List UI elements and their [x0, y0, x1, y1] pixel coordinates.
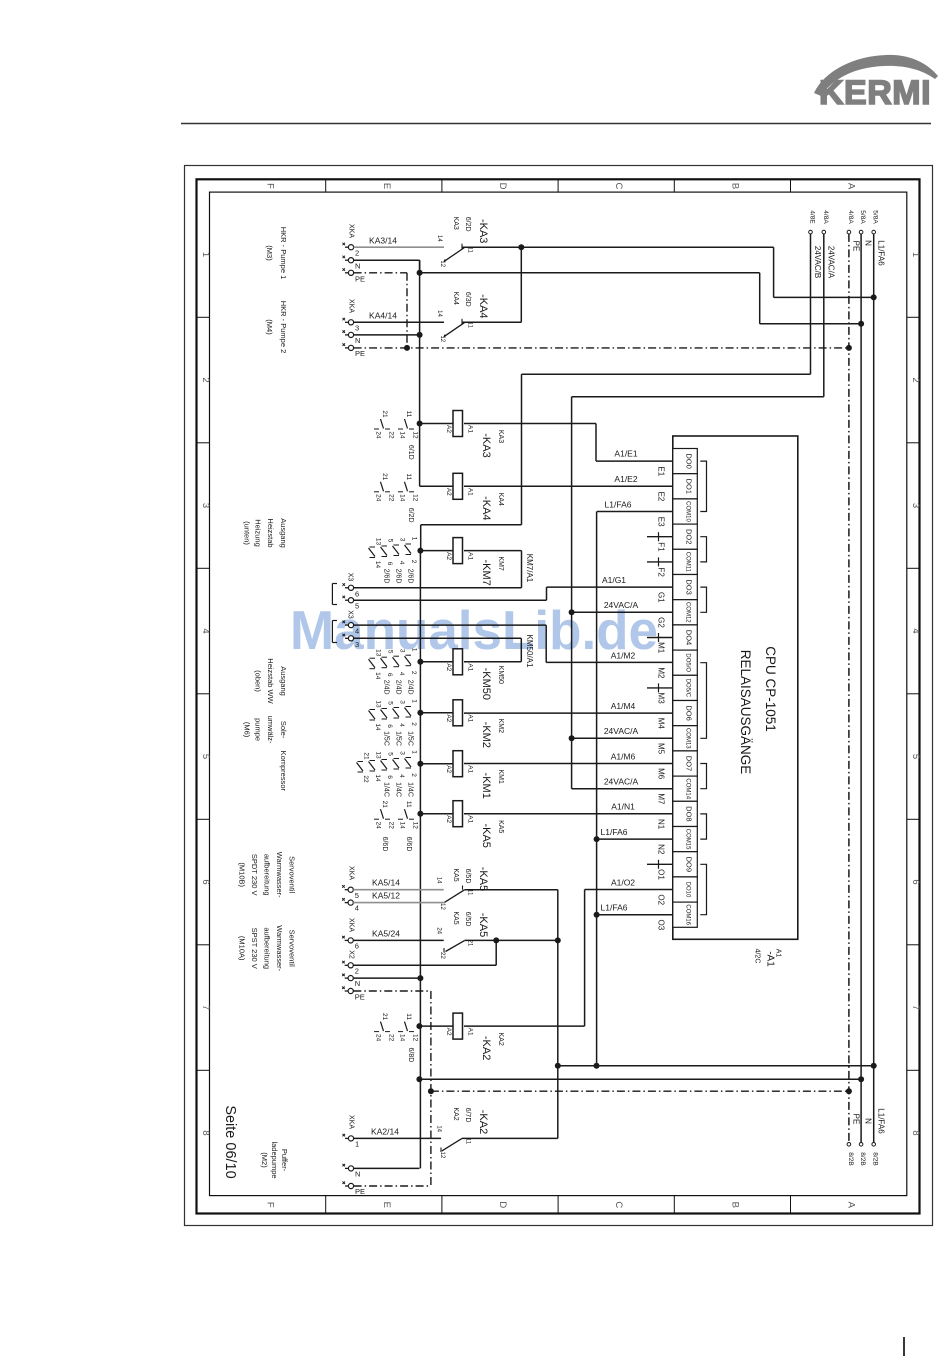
svg-text:ManualsLib.de: ManualsLib.de	[290, 599, 658, 661]
svg-text:A2: A2	[445, 765, 452, 773]
svg-text:-KA3: -KA3	[477, 219, 489, 243]
label Puffer- ladepumpe (M2)	[260, 1141, 289, 1178]
svg-text:14: 14	[436, 310, 442, 317]
svg-text:5/8A: 5/8A	[859, 210, 866, 224]
svg-text:8: 8	[200, 1130, 211, 1135]
terminal XKA:3	[343, 299, 360, 332]
contact refs KA2	[374, 1013, 419, 1062]
svg-text:PE: PE	[355, 274, 365, 283]
svg-text:DO8: DO8	[685, 806, 694, 821]
svg-text:KA4/14: KA4/14	[369, 311, 397, 321]
svg-text:DO1: DO1	[685, 479, 694, 494]
svg-text:A1/M4: A1/M4	[611, 701, 636, 711]
CPU terminal E3 (COM10)	[657, 499, 698, 527]
svg-text:KA3: KA3	[452, 217, 459, 230]
svg-text:(M2): (M2)	[260, 1152, 269, 1168]
terminal X3:4	[332, 610, 359, 642]
svg-text:(M6): (M6)	[243, 722, 252, 738]
svg-text:11: 11	[405, 1013, 412, 1020]
svg-text:N: N	[355, 979, 360, 988]
svg-text:6: 6	[355, 942, 359, 951]
CPU terminal O3 (COM16)	[657, 902, 698, 931]
wire KA5 contact2 out	[465, 937, 561, 943]
CPU U-A1 outline	[673, 436, 798, 939]
svg-text:E: E	[381, 183, 392, 189]
svg-text:3: 3	[399, 751, 406, 755]
svg-text:12: 12	[439, 335, 445, 342]
contact KA4 (11/12/14)	[436, 292, 489, 343]
svg-text:DO9: DO9	[685, 857, 694, 872]
svg-text:M3: M3	[657, 693, 666, 705]
svg-text:24: 24	[375, 1034, 382, 1042]
svg-text:KERMI: KERMI	[819, 74, 931, 112]
svg-text:14: 14	[399, 494, 406, 502]
svg-text:PE: PE	[355, 992, 365, 1001]
net L1/FA6 bus	[872, 210, 886, 1165]
svg-text:14: 14	[374, 774, 381, 782]
svg-text:12: 12	[412, 1034, 419, 1042]
svg-text:2/6D: 2/6D	[395, 569, 402, 584]
CPU terminal F1 (DO2)	[657, 524, 698, 552]
svg-text:COM15: COM15	[685, 829, 691, 850]
terminal XKA:6	[342, 918, 359, 951]
svg-text:6/1D: 6/1D	[407, 445, 414, 460]
svg-text:2/4D: 2/4D	[383, 680, 390, 695]
svg-text:12: 12	[439, 1152, 445, 1159]
svg-text:O3: O3	[657, 920, 666, 931]
svg-text:Servoventil: Servoventil	[288, 930, 297, 967]
svg-text:PE: PE	[852, 241, 861, 252]
svg-text:6: 6	[386, 673, 393, 677]
frame row numbers	[200, 252, 921, 1136]
contact refs KA4	[374, 473, 419, 522]
svg-text:C: C	[613, 1201, 624, 1208]
label Sole- umwaelz- pumpe (M6)	[243, 716, 288, 744]
svg-text:KA2: KA2	[497, 1032, 504, 1045]
svg-text:14: 14	[399, 822, 406, 830]
svg-text:2/4D: 2/4D	[395, 680, 402, 695]
svg-text:3: 3	[399, 700, 406, 704]
relay coil KM7	[417, 538, 504, 586]
svg-text:Kompressor: Kompressor	[279, 751, 288, 792]
svg-text:3: 3	[910, 503, 921, 508]
svg-text:6/7D: 6/7D	[464, 1108, 471, 1123]
relay coil KA2	[416, 1013, 504, 1060]
wire 24VAC/A drop	[569, 397, 673, 789]
relay coil KA4	[420, 473, 504, 520]
svg-text:2: 2	[200, 377, 211, 382]
label HKR - Pumpe 2 (M4)	[265, 301, 288, 354]
svg-text:11: 11	[405, 473, 412, 480]
svg-text:4: 4	[398, 774, 405, 778]
svg-text:CPU CP-1051: CPU CP-1051	[763, 646, 778, 732]
svg-text:KA2/14: KA2/14	[371, 1126, 399, 1136]
svg-text:F2: F2	[657, 567, 666, 577]
terminal XKA:N (2)	[343, 330, 361, 345]
svg-text:L1/FA6: L1/FA6	[601, 903, 628, 913]
svg-text:A2: A2	[445, 488, 452, 496]
svg-text:A1: A1	[467, 815, 474, 823]
svg-text:-KA5: -KA5	[477, 913, 489, 937]
svg-text:14: 14	[374, 672, 381, 680]
svg-text:-KA4: -KA4	[480, 496, 492, 520]
svg-text:2: 2	[410, 722, 417, 726]
svg-text:A1/O2: A1/O2	[611, 877, 635, 887]
svg-text:N: N	[355, 261, 360, 270]
svg-text:3: 3	[200, 503, 211, 508]
svg-text:24: 24	[375, 822, 382, 830]
svg-text:A1/N1: A1/N1	[611, 802, 635, 812]
contact refs KM50	[369, 648, 418, 695]
CPU terminal E2 (DO1)	[657, 474, 698, 502]
svg-text:F: F	[265, 1202, 276, 1208]
wire A1/M2 from X3:4	[354, 625, 673, 662]
svg-text:N: N	[355, 1169, 360, 1178]
terminal XKA:5	[342, 866, 359, 900]
svg-text:M5: M5	[657, 743, 666, 755]
drawing frame inner	[210, 192, 907, 1196]
CPU terminal N2 (COM15)	[657, 827, 698, 855]
svg-text:E2: E2	[657, 492, 666, 502]
svg-text:12: 12	[439, 260, 445, 267]
label Servoventil SPST (M10A)	[237, 925, 296, 971]
svg-text:E1: E1	[657, 466, 666, 476]
svg-text:6: 6	[910, 879, 921, 884]
svg-text:KM7: KM7	[497, 556, 504, 571]
svg-text:X2: X2	[348, 950, 355, 959]
svg-text:3: 3	[355, 323, 359, 332]
svg-text:4: 4	[910, 628, 921, 633]
net PE bus	[847, 210, 861, 1165]
svg-text:M2: M2	[657, 667, 666, 679]
contact refs KM7	[369, 537, 418, 584]
svg-text:6/6D: 6/6D	[405, 837, 412, 852]
footer mark	[903, 1337, 905, 1356]
svg-text:(oben): (oben)	[254, 670, 263, 692]
svg-text:1/5C: 1/5C	[407, 731, 414, 746]
svg-text:M1: M1	[657, 642, 666, 654]
wire PE drop	[354, 273, 407, 348]
CPU terminal F2 (COM11)	[657, 549, 698, 577]
svg-text:N: N	[864, 240, 873, 246]
wire N2 to bus	[354, 332, 423, 338]
relay coil KM50	[417, 649, 521, 700]
svg-text:aufbereitung: aufbereitung	[262, 854, 271, 896]
svg-text:A1: A1	[467, 714, 474, 722]
svg-text:24VAC/A: 24VAC/A	[604, 777, 639, 787]
wire KM7/A1 to X3:6	[354, 551, 534, 588]
svg-text:KA2: KA2	[452, 1107, 459, 1120]
contact refs KM1	[357, 750, 418, 797]
wire A1/O2	[464, 877, 673, 1026]
svg-text:Heizstab WW: Heizstab WW	[266, 658, 275, 704]
terminal X3:6	[332, 573, 359, 605]
terminal XKA:1	[343, 1115, 360, 1149]
terminal XKA:N (bottom)	[343, 1164, 420, 1178]
CPU terminal O2 (DO10)	[657, 877, 698, 906]
CPU terminal G2 (COM12)	[657, 600, 698, 629]
svg-text:KA5/12: KA5/12	[372, 891, 400, 901]
wire A1/G1 from X3:5	[354, 575, 673, 600]
svg-text:-KM50: -KM50	[480, 668, 492, 700]
wire KA5/24	[353, 928, 443, 940]
svg-text:Sole-: Sole-	[279, 721, 288, 739]
svg-text:6/5D: 6/5D	[464, 869, 471, 884]
svg-text:3: 3	[399, 649, 406, 653]
svg-text:DO10: DO10	[685, 882, 691, 898]
terminal X2:2	[342, 950, 359, 975]
svg-text:14: 14	[399, 431, 406, 439]
svg-text:7: 7	[910, 1005, 921, 1010]
svg-text:4: 4	[398, 723, 405, 727]
wire KA2 common riser	[557, 940, 559, 1138]
svg-text:ladepumpe: ladepumpe	[270, 1141, 279, 1178]
contact KA5 (21/22/24)	[436, 911, 490, 959]
svg-text:22: 22	[362, 775, 369, 783]
svg-text:XKA: XKA	[348, 224, 355, 238]
frame ticks	[197, 179, 920, 1213]
contact KA5 (11/12/14)	[436, 867, 490, 911]
net N bus	[859, 210, 873, 1165]
svg-text:aufbereitung: aufbereitung	[262, 927, 271, 969]
svg-text:5: 5	[355, 602, 359, 611]
svg-text:A1/G1: A1/G1	[602, 575, 626, 585]
svg-text:5: 5	[355, 891, 359, 900]
svg-text:pumpe: pumpe	[254, 718, 263, 741]
svg-text:8/2B: 8/2B	[847, 1152, 854, 1165]
CPU terminal E1 (DO0)	[657, 449, 698, 477]
svg-text:5: 5	[387, 650, 394, 654]
label Ausgang Heizstab Heizung (unten)	[243, 518, 288, 548]
svg-text:5: 5	[200, 754, 211, 759]
svg-text:13: 13	[375, 649, 382, 657]
svg-text:14: 14	[436, 1125, 442, 1132]
svg-text:A1: A1	[467, 488, 474, 496]
svg-text:X3: X3	[347, 573, 354, 582]
svg-text:-KA4: -KA4	[477, 294, 489, 318]
svg-text:8/2B: 8/2B	[859, 1152, 866, 1165]
svg-text:7: 7	[200, 1005, 211, 1010]
wire KA4/14	[354, 311, 444, 323]
stub wire at y=561.9	[647, 557, 673, 566]
svg-text:22: 22	[439, 952, 445, 959]
svg-text:1: 1	[411, 699, 418, 703]
svg-text:KM50: KM50	[497, 666, 504, 684]
svg-text:M4: M4	[657, 718, 666, 730]
svg-text:L1/FA6: L1/FA6	[601, 827, 628, 837]
label HKR - Pumpe 1 (M3)	[265, 227, 288, 280]
svg-text:COM16: COM16	[685, 904, 691, 925]
stub wire at y=637.5	[647, 633, 673, 642]
svg-text:1/4C: 1/4C	[407, 782, 414, 797]
svg-text:24VAC/A: 24VAC/A	[826, 246, 835, 279]
svg-text:(M10B): (M10B)	[237, 862, 246, 887]
wire N bottom link	[416, 1076, 864, 1082]
svg-text:KA5: KA5	[452, 868, 459, 881]
terminal X2:PE	[342, 987, 365, 1002]
svg-text:A2: A2	[445, 714, 452, 722]
svg-text:A2: A2	[445, 663, 452, 671]
CPU terminal G1 (DO3)	[657, 575, 698, 604]
svg-text:COM11: COM11	[685, 552, 691, 573]
junction KA3/KA4 out	[518, 244, 524, 250]
wire N to bus	[354, 260, 864, 327]
stub wire at y=536.7	[647, 532, 673, 541]
svg-text:21: 21	[381, 1013, 388, 1021]
svg-text:KM7/A1: KM7/A1	[525, 554, 534, 583]
svg-text:XKA: XKA	[348, 866, 355, 880]
page border	[185, 166, 933, 1226]
svg-text:6/2D: 6/2D	[464, 217, 471, 232]
wire KA5 common to node	[465, 890, 558, 941]
svg-text:2: 2	[355, 966, 359, 975]
wire PE bottom link	[428, 1088, 852, 1094]
svg-text:M7: M7	[657, 793, 666, 805]
svg-text:6: 6	[386, 775, 393, 779]
svg-text:-A1: -A1	[765, 951, 776, 967]
svg-text:Warmwasser-: Warmwasser-	[275, 925, 284, 971]
CPU terminal M2 (DO5/O)	[657, 650, 698, 679]
svg-text:KM1: KM1	[497, 769, 504, 784]
svg-text:N: N	[355, 336, 360, 345]
svg-text:3: 3	[355, 640, 359, 649]
terminal XKA:PE (bottom)	[343, 1182, 431, 1197]
svg-text:Puffer-: Puffer-	[280, 1149, 289, 1172]
svg-text:24: 24	[375, 494, 382, 502]
CPU terminal M6 (DO7)	[657, 751, 698, 780]
svg-text:8/2B: 8/2B	[872, 1152, 879, 1165]
svg-text:1: 1	[411, 750, 418, 754]
svg-text:6: 6	[386, 562, 393, 566]
svg-text:L1/FA6: L1/FA6	[876, 1108, 885, 1134]
svg-text:N1: N1	[657, 819, 666, 830]
svg-text:(M4): (M4)	[265, 319, 274, 335]
svg-text:D: D	[497, 183, 508, 190]
terminal X3:3	[343, 634, 360, 649]
net 24VAC/B feed	[522, 210, 823, 374]
svg-text:A1: A1	[467, 663, 474, 671]
svg-text:Ausgang: Ausgang	[279, 518, 288, 548]
svg-text:1: 1	[910, 252, 921, 257]
svg-text:6: 6	[355, 589, 359, 598]
svg-text:2: 2	[410, 671, 417, 675]
svg-text:A1: A1	[467, 1028, 474, 1036]
relay coil KM2	[417, 700, 504, 748]
svg-text:4/8A: 4/8A	[822, 210, 829, 224]
svg-text:2/4D: 2/4D	[407, 680, 414, 695]
svg-text:Warmwasser-: Warmwasser-	[275, 852, 284, 898]
svg-text:4: 4	[355, 904, 359, 913]
svg-text:4: 4	[398, 561, 405, 565]
svg-text:KA5: KA5	[452, 911, 459, 924]
svg-text:E3: E3	[657, 517, 666, 527]
wire KA2/14	[354, 1126, 441, 1138]
CPU terminal M5 (COM13)	[657, 726, 698, 755]
contact refs KA3	[374, 410, 419, 459]
CPU terminal M4 (DO6)	[657, 701, 698, 730]
svg-text:24: 24	[436, 927, 442, 934]
CPU terminal M1 (DO4)	[657, 625, 698, 654]
svg-text:6/8D: 6/8D	[407, 1048, 414, 1063]
svg-text:KM50/A1: KM50/A1	[525, 635, 534, 668]
svg-text:13: 13	[375, 538, 382, 546]
svg-text:2: 2	[410, 773, 417, 777]
svg-text:D: D	[497, 1201, 508, 1208]
svg-text:12: 12	[412, 822, 419, 830]
svg-text:DO3: DO3	[685, 579, 694, 594]
svg-text:KA4: KA4	[452, 292, 459, 305]
svg-text:SPST 230 V: SPST 230 V	[250, 928, 259, 969]
wire node to L1 bus	[774, 247, 877, 300]
svg-text:XKA: XKA	[348, 918, 355, 932]
svg-text:4/8A: 4/8A	[847, 210, 854, 224]
svg-text:A1/M6: A1/M6	[611, 751, 636, 761]
svg-text:A1: A1	[467, 425, 474, 433]
svg-text:21: 21	[381, 473, 388, 481]
svg-text:E: E	[381, 1202, 392, 1208]
svg-text:5: 5	[387, 752, 394, 756]
svg-text:N2: N2	[657, 844, 666, 855]
svg-text:RELAISAUSGÄNGE: RELAISAUSGÄNGE	[738, 650, 753, 775]
svg-text:KA3/14: KA3/14	[369, 236, 397, 246]
svg-text:12: 12	[412, 431, 419, 439]
svg-text:21: 21	[381, 410, 388, 418]
svg-text:6/6D: 6/6D	[381, 837, 388, 852]
svg-text:B: B	[729, 1202, 740, 1208]
header rule	[181, 123, 931, 125]
terminal XKA:4	[342, 898, 359, 913]
wire L1/FA6 trunk	[594, 499, 673, 1065]
svg-text:DO7: DO7	[685, 756, 694, 771]
terminal X2:N	[342, 974, 360, 989]
svg-text:A: A	[846, 183, 857, 190]
svg-text:24VAC/B: 24VAC/B	[813, 246, 822, 278]
svg-text:4/2C: 4/2C	[754, 949, 761, 964]
wire A1/E2	[464, 474, 673, 486]
svg-text:21: 21	[363, 752, 370, 760]
wire KM50/A1	[354, 635, 534, 668]
svg-text:12: 12	[439, 903, 445, 910]
svg-text:G2: G2	[657, 617, 666, 628]
svg-text:COM12: COM12	[685, 602, 691, 623]
wire A1/E1	[464, 424, 673, 462]
svg-text:KM2: KM2	[497, 719, 504, 734]
svg-text:24VAC/A: 24VAC/A	[604, 600, 639, 610]
svg-text:KA4: KA4	[497, 493, 504, 506]
svg-text:22: 22	[388, 822, 395, 830]
svg-text:HKR - Pumpe 1: HKR - Pumpe 1	[279, 227, 288, 280]
svg-text:2: 2	[410, 560, 417, 564]
svg-text:PE: PE	[355, 1187, 365, 1196]
svg-text:XKA: XKA	[348, 1115, 355, 1129]
wire A1/M4	[464, 701, 673, 713]
wire L1 bottom link	[555, 1063, 877, 1069]
contact KA2 (11/12/14)	[436, 1107, 490, 1159]
svg-text:Servoventil: Servoventil	[288, 856, 297, 893]
net 24VAC/A feed	[572, 210, 836, 396]
svg-text:21: 21	[381, 801, 388, 809]
svg-text:1/4C: 1/4C	[383, 782, 390, 797]
svg-text:4: 4	[398, 672, 405, 676]
svg-text:A2: A2	[445, 1028, 452, 1036]
svg-text:13: 13	[375, 700, 382, 708]
svg-text:-KA5: -KA5	[477, 867, 489, 891]
svg-text:O2: O2	[657, 894, 666, 905]
svg-text:22: 22	[388, 494, 395, 502]
svg-text:1: 1	[411, 648, 418, 652]
svg-text:5: 5	[387, 701, 394, 705]
svg-text:DO4: DO4	[685, 630, 694, 645]
